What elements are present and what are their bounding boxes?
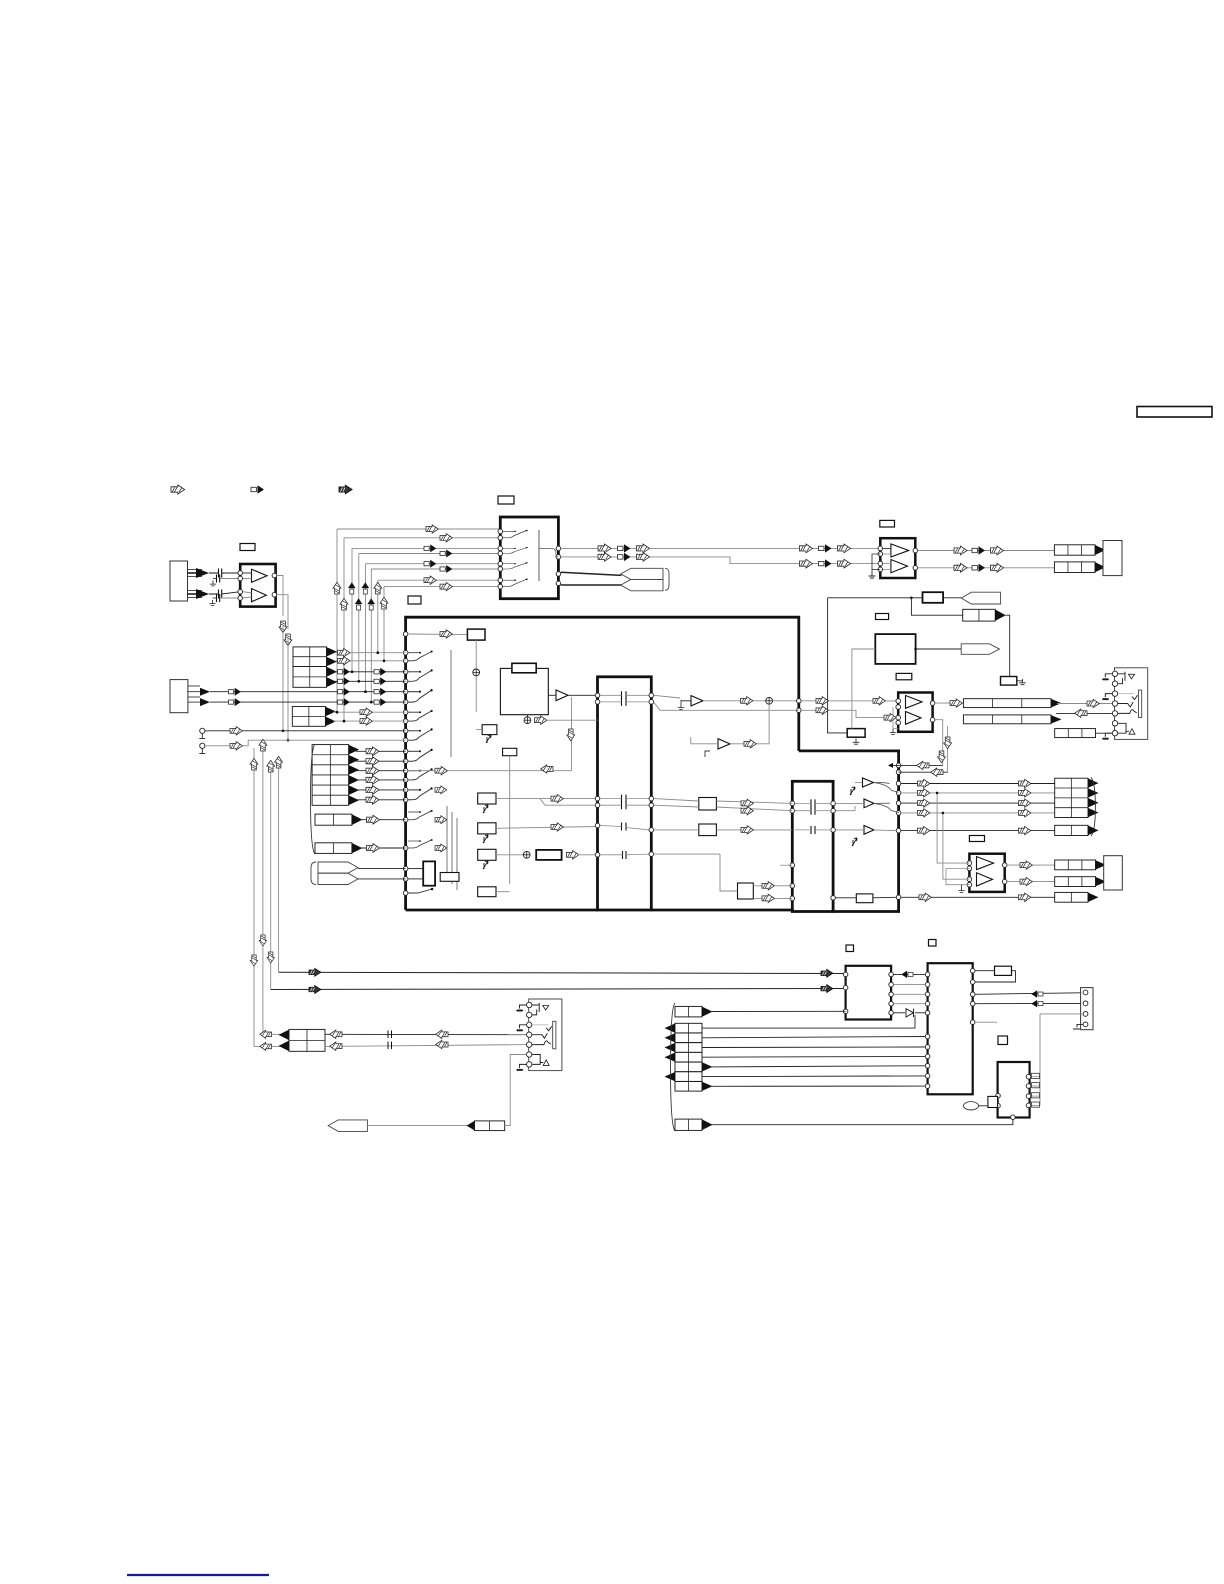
- arrow out2 y812.9: [1019, 809, 1031, 817]
- IC501 pin16: [403, 788, 408, 793]
- riser internal 476: [475, 640, 477, 712]
- op-amp U201: [880, 538, 915, 578]
- IC502 right pin y805.2: [649, 803, 654, 808]
- U302 out2: [1002, 879, 1007, 884]
- buffer T502: [691, 696, 703, 706]
- IC502 cap y701.9: [622, 698, 627, 706]
- arrow d1c: [991, 546, 1004, 555]
- wire st1 r1: [334, 652, 406, 654]
- mark Q501: [486, 735, 491, 743]
- wire U201 out1: [918, 550, 1055, 552]
- arrow S502: [535, 716, 547, 724]
- box V501: [423, 861, 435, 885]
- wire stub2: [205, 740, 406, 746]
- IC502 left pin y805.2: [595, 803, 600, 808]
- wire r7 2: [702, 1037, 925, 1038]
- riser arrow 8: [380, 597, 388, 609]
- crystal box X201: [875, 634, 915, 664]
- arrow Q504: [551, 823, 563, 831]
- IC503 cap1: [811, 799, 815, 807]
- label box U301: [896, 673, 912, 679]
- wire to ribbon2: [561, 584, 622, 586]
- arrow out1 y812.9: [918, 809, 930, 817]
- wire L cap to U101: [222, 572, 240, 574]
- label box U201: [880, 520, 895, 527]
- IC501 pin17: [403, 798, 408, 803]
- resistor R202: [1001, 677, 1017, 686]
- cable box CN201b: [1054, 562, 1095, 573]
- arrow c1e: [819, 544, 832, 552]
- IC501 pin18: [403, 817, 408, 822]
- wire U101 out1: [277, 576, 283, 617]
- arrow CN102a: [200, 688, 210, 696]
- IC502 right pin y798.6: [649, 796, 654, 801]
- IC803: [998, 1062, 1030, 1118]
- arrow d2a: [954, 563, 967, 572]
- wire out y783.5: [901, 783, 1055, 785]
- wire P101: [367, 1125, 467, 1127]
- wire ribbon pins: [408, 868, 423, 870]
- terminal box CN306: [1104, 856, 1123, 890]
- arrow g1b: [741, 807, 753, 815]
- IC501 switch 4: [408, 710, 433, 721]
- U101 out1: [272, 573, 277, 578]
- IC601 switch 1: [503, 530, 528, 538]
- U302 in wire1: [937, 793, 969, 863]
- capacitor C102: [219, 590, 222, 599]
- arrow p254 top: [250, 758, 258, 770]
- bus pin y772.2: [896, 770, 901, 775]
- cable box CN804: [675, 1119, 702, 1130]
- bus pin y792.9: [896, 791, 901, 796]
- IC801 pin l3: [843, 1009, 848, 1014]
- wire st3 r2: [356, 760, 406, 762]
- U201 ground: [869, 572, 876, 578]
- U301 pin2: [896, 705, 901, 710]
- arrow top5: [424, 560, 436, 568]
- IC601 switch 4: [503, 578, 528, 586]
- arrow d1a: [954, 546, 967, 555]
- arrow d1b: [972, 546, 985, 554]
- wire pair R: [188, 590, 203, 592]
- IC601 left pin3: [498, 546, 503, 551]
- riser arrow 1: [333, 582, 341, 594]
- IC803 pin l1: [996, 1093, 1001, 1098]
- arrow c1d: [800, 544, 813, 553]
- arrow M3 o2: [762, 894, 774, 902]
- connector CN101: [170, 561, 188, 601]
- IC502 left pin y825.5: [595, 823, 600, 828]
- arrow cn102b3: [338, 698, 350, 706]
- arrow jw2a: [330, 1042, 342, 1050]
- arrow c1a: [598, 544, 611, 553]
- box M1: [699, 798, 717, 811]
- U201 pin2: [878, 552, 883, 557]
- IC803 pin r y1086: [1026, 1084, 1031, 1089]
- resonator X802: [964, 1102, 979, 1110]
- IC601 right pin: [556, 581, 561, 586]
- arrow out1 y803.1: [918, 799, 930, 807]
- IC501 switch 6: [408, 749, 433, 762]
- IC501 pin2: [403, 650, 408, 655]
- arrow top3: [424, 544, 436, 552]
- CN801 ground: [1073, 1024, 1083, 1029]
- wire bus765: [889, 764, 943, 766]
- wire cn801 p3: [1040, 1013, 1083, 1015]
- U201 bias wire: [872, 554, 880, 569]
- arrow riser947: [944, 737, 952, 749]
- IC501 pin3: [403, 659, 408, 664]
- wire Q504 out: [496, 827, 598, 829]
- wire U302 out2: [1007, 881, 1055, 883]
- wire g1: [654, 799, 699, 801]
- arrow d2c: [991, 563, 1004, 572]
- wire top6 horizontal: [371, 568, 500, 570]
- arrow p263 mid: [259, 935, 266, 946]
- IC503 wire int1: [795, 802, 811, 804]
- wire stub1: [205, 730, 406, 732]
- wire cn802: [710, 1010, 846, 1012]
- IC801 pin r y994.3: [889, 992, 894, 997]
- U302 pin1: [967, 861, 972, 866]
- buffer T503: [718, 739, 730, 749]
- mark T506: [852, 838, 857, 846]
- arrow st3 r5: [366, 786, 379, 795]
- IC501 switch 893: [408, 889, 432, 893]
- riser arrow 3: [362, 582, 370, 594]
- IC503 left pin y810.7: [790, 808, 795, 813]
- box M2: [699, 824, 717, 836]
- riser p254: [253, 748, 255, 1046]
- wire T501 out: [568, 694, 598, 696]
- wire g1b: [654, 805, 699, 807]
- arrow p254 mid: [250, 955, 257, 966]
- capacitor C104: [217, 594, 220, 602]
- IC801 pin r y1003.7: [889, 1001, 894, 1006]
- IC502 cap y855: [623, 851, 627, 859]
- cable box CN803 row1: [675, 1023, 702, 1033]
- riser4 vertical: [358, 554, 360, 682]
- IC502 cap y695.3: [622, 691, 627, 699]
- arrow st3 r1: [366, 747, 379, 756]
- wire T504 out: [874, 782, 899, 792]
- capacitor C103: [217, 575, 220, 583]
- wire A3: [1006, 615, 1010, 676]
- U302 out1: [1002, 863, 1007, 868]
- IC601 left pin5: [498, 561, 503, 566]
- bus pin y830.6: [896, 828, 901, 833]
- wire R502 out: [578, 854, 597, 856]
- arrow T503: [744, 740, 756, 748]
- arrow bt2b: [821, 985, 833, 993]
- op-amp U302: [969, 854, 1004, 892]
- sum S502: [524, 717, 531, 724]
- label box U101: [240, 544, 255, 551]
- label box X201: [876, 614, 889, 620]
- IC503 left pin y898.4: [790, 896, 795, 901]
- wire bt2: [271, 989, 846, 990]
- wire g3: [654, 853, 720, 855]
- arrow out1 y792.9: [918, 789, 930, 797]
- bus pin y897.3: [896, 895, 901, 900]
- arrow c2e: [819, 559, 832, 567]
- riser internal 510: [509, 756, 511, 884]
- IC802 pin r y1022.2: [970, 1020, 975, 1025]
- sum S501: [473, 669, 480, 676]
- ribbon cable CN506: [318, 862, 358, 873]
- wire pin634: [408, 633, 467, 636]
- IC502 left pin y701.9: [595, 700, 600, 705]
- wire to ribbon1: [561, 572, 622, 575]
- arrow c2d: [800, 559, 813, 568]
- IC501 pin10: [403, 729, 408, 734]
- label box U302: [969, 836, 984, 842]
- arrow p271 top: [267, 760, 275, 772]
- riser p279: [278, 765, 280, 972]
- arrow st3 r3: [366, 766, 379, 775]
- riser8 vertical: [383, 587, 385, 661]
- arrow jf1: [260, 1030, 272, 1038]
- IC601 left pin6: [498, 567, 503, 572]
- arrow u2b: [884, 713, 896, 721]
- IC502 cap y805.2: [622, 801, 627, 809]
- wire lb left1: [780, 864, 792, 866]
- wire lb out b: [835, 810, 855, 812]
- arrow M3 o1: [762, 882, 774, 890]
- riser p263: [262, 745, 264, 1034]
- wire to jack7: [1096, 732, 1113, 734]
- vert 1040: [1039, 1014, 1041, 1106]
- IC501 right pin1: [797, 699, 802, 704]
- capacitor C101: [219, 569, 222, 578]
- arrow R502: [567, 851, 579, 859]
- IC802 pin l y1003.7: [925, 1001, 930, 1006]
- wire L to cap: [209, 572, 219, 574]
- IC501 pin9: [403, 719, 408, 724]
- IC501 pin8: [403, 710, 408, 715]
- IC501 switch 5: [408, 728, 433, 740]
- cable plug P201: [961, 592, 1000, 604]
- cable plug P202: [961, 644, 999, 655]
- wire U201 out2: [918, 567, 1055, 569]
- wire U302 out1: [1007, 864, 1055, 866]
- wire st3 r4: [356, 779, 406, 781]
- arrow pin634: [440, 630, 452, 638]
- arrow in790: [435, 786, 447, 794]
- wire A vert: [828, 598, 848, 733]
- switch box IC601: [500, 517, 558, 599]
- riser6 vertical: [370, 569, 372, 702]
- arrow jw1a: [330, 1030, 342, 1038]
- U201 pin1: [878, 546, 883, 551]
- wire Q501: [476, 729, 482, 731]
- IC601 left pin4: [498, 551, 503, 556]
- IC501 pin15: [403, 778, 408, 783]
- vert v447: [446, 806, 448, 878]
- wire mb2: [654, 702, 799, 710]
- IC503 left pin y865.2: [790, 863, 795, 868]
- bus pin y803.1: [896, 801, 901, 806]
- IC501 pin5: [403, 679, 408, 684]
- U101 out2: [272, 592, 277, 597]
- riser internal 571: [571, 697, 573, 771]
- IC802: [928, 963, 973, 1094]
- IC501 pin1: [403, 632, 408, 637]
- arrow top4: [440, 550, 452, 558]
- arrow st4: [367, 815, 380, 824]
- IC501 switch 3: [408, 689, 433, 702]
- op-amp U101: [240, 564, 275, 607]
- IC501 pin11: [403, 738, 408, 743]
- wire st3 r3: [356, 770, 406, 772]
- IC802 pin r y970.7: [970, 968, 975, 973]
- IC502 left pin y798.6: [595, 796, 600, 801]
- wire out y803.1: [901, 802, 1055, 804]
- arrow cn102b4: [374, 698, 386, 706]
- wire T505 out: [874, 803, 899, 813]
- cable box CN202: [963, 609, 996, 621]
- wire st3 r5: [356, 789, 406, 791]
- IC802 pin l y994.3: [925, 992, 930, 997]
- label box IC601: [498, 496, 514, 504]
- arrow cn102a4: [374, 688, 386, 696]
- cable plug P101: [328, 1120, 367, 1132]
- cable stack CN503 (6 rows): [312, 745, 349, 806]
- wire cn102a: [210, 691, 406, 693]
- U201 pin4: [878, 567, 883, 572]
- sum S503: [523, 851, 530, 858]
- arrow jf2: [260, 1042, 272, 1050]
- cable box CN802: [675, 1006, 702, 1017]
- wire to jack1: [1057, 703, 1112, 705]
- wire i12 e: [893, 1012, 905, 1014]
- arrow cn102b2: [229, 698, 241, 706]
- wire r7 3: [702, 1046, 925, 1049]
- op-amp U301: [898, 693, 932, 732]
- U301 out2: [930, 717, 935, 722]
- wire sw-out1: [561, 547, 880, 549]
- arrow riser571: [567, 729, 575, 741]
- U302 bias: [946, 868, 969, 884]
- title reference box top-right: [1137, 407, 1212, 418]
- IC803 pin r y1096.1: [1026, 1094, 1031, 1099]
- sum S504: [766, 697, 773, 704]
- U201 out2: [913, 566, 918, 571]
- buffer T504: [863, 778, 874, 787]
- wire r7 7: [710, 1085, 926, 1087]
- riser1 vertical: [336, 529, 338, 712]
- IC502 cap y798.6: [622, 795, 627, 803]
- IC502 left pin y695.3: [595, 693, 600, 698]
- riser p271: [270, 768, 272, 990]
- arrow i2 c1: [1031, 990, 1043, 998]
- wire i2 c2: [975, 1002, 1081, 1004]
- cable box CN803 row2: [675, 1033, 702, 1043]
- cable box CN304: [1055, 892, 1088, 902]
- IC503 wire int2: [795, 810, 811, 812]
- wire r7 1: [702, 1015, 915, 1028]
- ground G2: [209, 600, 215, 605]
- IC803 pin r y1076.7: [1026, 1074, 1031, 1079]
- U101 pin1: [238, 571, 243, 576]
- arrow out2 y783.5: [1019, 779, 1031, 787]
- resistor R201: [923, 592, 944, 603]
- riser3 vertical: [351, 548, 353, 671]
- IC501 pin19: [403, 846, 408, 851]
- IC802 pin r y1003.7: [970, 1001, 975, 1006]
- IC801 pin r y974.4: [889, 972, 894, 977]
- arrow top8: [440, 582, 452, 590]
- wire st1 r4: [334, 680, 406, 682]
- wire U301 out1: [935, 702, 964, 704]
- IC802 pin l y1086.1: [925, 1084, 930, 1089]
- box R203: [847, 729, 865, 738]
- wire st1 r2: [334, 660, 406, 662]
- arrow i12 a: [901, 971, 913, 979]
- cable box CN803 row5: [675, 1062, 702, 1072]
- arrow p271 mid: [267, 952, 274, 963]
- wire st3 r1: [356, 750, 406, 752]
- box Q504: [478, 823, 496, 834]
- legend hatched-arrow symbol: [171, 485, 185, 494]
- arrow top6: [440, 565, 452, 573]
- arrow out1 y783.5: [918, 779, 930, 787]
- riser5 vertical: [365, 564, 367, 692]
- arrow e1: [950, 699, 962, 707]
- IC502 right pin y695.3: [649, 693, 654, 698]
- arrow top7: [424, 576, 436, 584]
- arrow bus765: [917, 761, 929, 769]
- crystal X801: [975, 970, 994, 972]
- U302 in wire2: [943, 813, 970, 879]
- arrow Q503: [551, 794, 563, 802]
- ribbon cable CN602: [621, 568, 663, 579]
- cable box CN803 row4: [675, 1052, 702, 1062]
- terminal box CN201: [1103, 541, 1122, 576]
- buffer T506: [864, 826, 874, 835]
- wire U101 out2: [277, 595, 288, 629]
- U301 pin4: [896, 720, 901, 725]
- cable box CN301a: [963, 699, 1051, 708]
- stub S2: [200, 743, 205, 748]
- cap jw1: [388, 1031, 392, 1039]
- CN801 pin y1003.4: [1083, 1001, 1088, 1006]
- IC502 right pin y701.9: [649, 700, 654, 705]
- IC601 left pin8: [498, 584, 503, 589]
- IC503 right pin y829.9: [831, 828, 836, 833]
- cable box CN201a: [1054, 545, 1095, 555]
- brace CN503: [311, 744, 316, 854]
- arrow out2 y792.9: [1019, 789, 1031, 797]
- arrow mb1: [741, 697, 753, 705]
- IC501 pin20: [403, 866, 408, 871]
- bus thick right: [799, 751, 899, 912]
- wire S502 out: [547, 719, 598, 721]
- U302 pin2: [967, 866, 972, 871]
- legend dark-arrow symbol: [339, 485, 352, 494]
- wire r7 5: [710, 1066, 926, 1067]
- wire to U101 pin4: [220, 597, 240, 599]
- wire out y792.9: [901, 792, 1055, 794]
- arrow st1 r2: [338, 657, 350, 665]
- bus pin y765.4: [896, 763, 901, 768]
- IC802 pin l y1036.5: [925, 1034, 930, 1039]
- vert v452: [451, 812, 453, 884]
- label sq3: [998, 1036, 1008, 1045]
- arrow y770a: [435, 767, 447, 775]
- middle box IC502: [598, 677, 652, 910]
- IC601 switch 3: [503, 562, 528, 569]
